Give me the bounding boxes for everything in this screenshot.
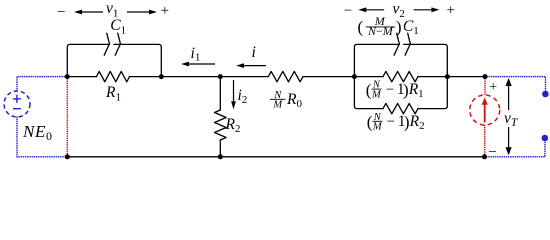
arrow v1 left — [80, 11, 103, 13]
wire blue dotted left port — [17, 77, 67, 157]
svg-text:M: M — [272, 100, 283, 111]
svg-text:+: + — [446, 3, 454, 19]
resistor (N/M-1)R1 — [383, 71, 418, 81]
wire blue dotted right port — [485, 77, 546, 157]
arrow i2 — [233, 80, 235, 103]
resistor (N/M-1)R2 — [383, 103, 418, 113]
wire right capacitor box — [354, 44, 447, 76]
label (N/M)R0 fraction — [270, 90, 286, 111]
terminal dot bottom right — [542, 135, 549, 142]
svg-text:R2: R2 — [409, 113, 425, 132]
svg-text:R2: R2 — [225, 116, 241, 135]
arrow v1 right — [127, 11, 151, 13]
svg-text:−: − — [57, 5, 65, 21]
node E (right of right network) — [445, 74, 450, 79]
node H (bottom of R2) — [218, 154, 223, 159]
source NE0 plus — [13, 95, 21, 103]
label (N/M-1)R1 — [366, 80, 424, 101]
node A (top-left) — [65, 74, 70, 79]
terminal dot top right — [542, 91, 549, 98]
svg-text:i1: i1 — [191, 45, 201, 64]
svg-text:): ) — [396, 18, 402, 37]
arrow i — [242, 65, 266, 67]
label (M/(N-M))C1 — [358, 14, 419, 38]
svg-text:R1: R1 — [105, 84, 121, 103]
wire lower loop of (N/M-1)R2 branch — [354, 77, 447, 109]
svg-text:+: + — [161, 3, 169, 19]
arrow v2 right — [414, 9, 434, 11]
node I (bottom right port) — [482, 154, 487, 159]
capacitor (M/(N-M))C1 plates — [394, 33, 410, 55]
svg-text:−: − — [387, 114, 395, 130]
svg-text:(: ( — [366, 80, 372, 99]
wire C1 box (top-left parallel branch) — [67, 44, 161, 76]
svg-text:C1: C1 — [403, 18, 419, 37]
svg-text:N−M: N−M — [367, 24, 394, 38]
svg-text:NE0: NE0 — [22, 122, 52, 143]
label (N/M-1)R2 — [367, 112, 425, 133]
source NE0 circle — [4, 91, 30, 117]
resistor (N/M)R0 — [268, 71, 303, 81]
arrow i1 — [187, 63, 215, 65]
source NE0 minus — [13, 108, 21, 110]
node C (top of R2) — [218, 74, 223, 79]
svg-text:R0: R0 — [286, 91, 302, 110]
wire bottom — [67, 156, 484, 158]
wire red dotted left port — [66, 77, 68, 157]
arrow vT double-headed — [508, 84, 510, 151]
wire top main segments — [67, 76, 485, 78]
svg-text:i2: i2 — [238, 87, 248, 106]
svg-text:i: i — [252, 44, 256, 61]
svg-text:vT: vT — [504, 110, 519, 129]
dependent source arrow — [484, 103, 486, 123]
svg-text:M: M — [372, 122, 383, 133]
svg-text:(: ( — [358, 18, 364, 37]
node B (right of R1 box) — [159, 74, 164, 79]
svg-text:−: − — [488, 144, 496, 160]
node G (bottom-left) — [65, 154, 70, 159]
dependent source circle (red) — [470, 95, 500, 125]
arrow v2 left — [364, 9, 384, 11]
svg-text:M: M — [371, 89, 382, 100]
node F (top right port) — [483, 74, 488, 79]
svg-text:−: − — [344, 3, 352, 19]
wire red dotted right port — [484, 77, 486, 157]
wire R2 vertical branch — [219, 77, 221, 157]
svg-text:+: + — [489, 80, 497, 95]
resistor R2 — [215, 110, 227, 140]
svg-text:(: ( — [367, 113, 373, 132]
svg-text:R1: R1 — [408, 81, 424, 100]
svg-text:C1: C1 — [110, 17, 126, 36]
node D (left of right network) — [352, 74, 357, 79]
resistor R1 — [97, 71, 130, 81]
capacitor C1 plates — [104, 33, 120, 55]
svg-text:−: − — [386, 82, 394, 98]
